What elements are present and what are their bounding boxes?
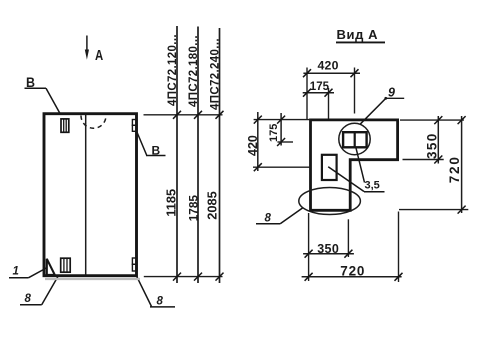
svg-text:2085: 2085	[205, 191, 220, 219]
svg-text:350: 350	[425, 132, 440, 159]
svg-text:420: 420	[246, 135, 260, 156]
svg-text:А: А	[95, 48, 104, 64]
svg-text:420: 420	[318, 59, 339, 73]
svg-text:350: 350	[317, 242, 339, 256]
svg-text:Вид А: Вид А	[337, 27, 379, 42]
svg-text:720: 720	[340, 264, 365, 279]
svg-text:1785: 1785	[187, 195, 201, 222]
svg-text:9: 9	[388, 86, 395, 100]
svg-text:8: 8	[157, 296, 164, 308]
svg-text:3,5: 3,5	[365, 180, 380, 192]
svg-text:720: 720	[447, 155, 462, 183]
svg-text:8: 8	[25, 293, 32, 305]
svg-text:8: 8	[265, 213, 272, 225]
svg-text:175: 175	[310, 81, 330, 93]
svg-text:1: 1	[13, 266, 19, 278]
svg-text:В: В	[152, 144, 161, 158]
svg-text:4ПС72.240...: 4ПС72.240...	[209, 38, 221, 110]
svg-text:175: 175	[268, 124, 280, 142]
svg-text:1185: 1185	[164, 189, 179, 217]
svg-text:4ПС72.120...: 4ПС72.120...	[167, 34, 179, 106]
svg-text:4ПС72.180...: 4ПС72.180...	[188, 35, 200, 107]
